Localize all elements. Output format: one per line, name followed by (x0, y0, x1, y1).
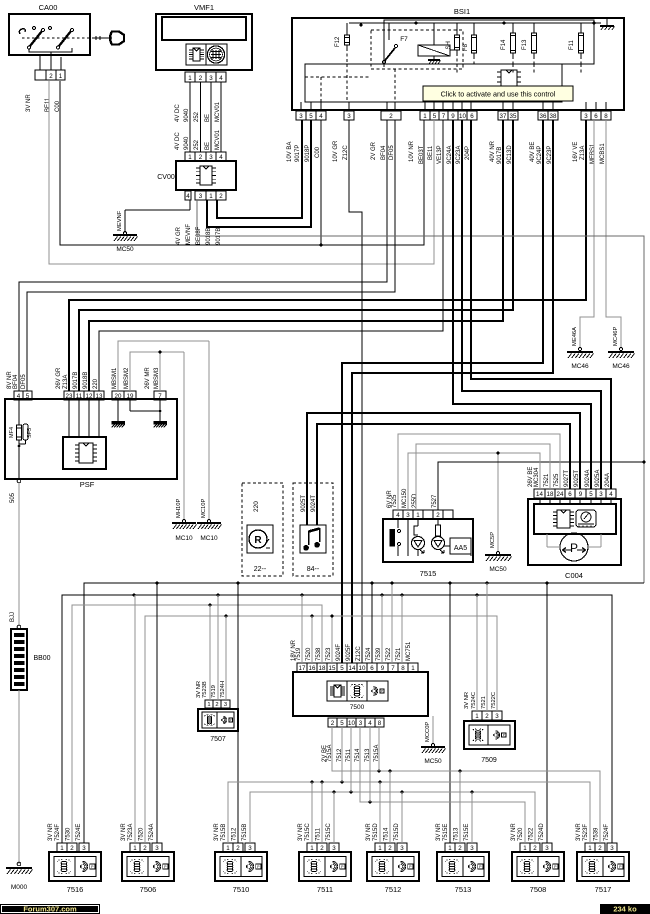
svg-text:7515C: 7515C (326, 823, 332, 841)
PSF internal ground pins 19 7 (129, 400, 131, 411)
wire BSI VE13P to PSF pin 13 (99, 120, 443, 391)
svg-text:BSI1: BSI1 (454, 7, 470, 16)
wire PSF pins 19 7 to MC10 (130, 352, 184, 391)
connector pins 7512 (375, 843, 385, 852)
BSI1 pin group 10V NR pins 1 5 7 9 10 6 (420, 111, 430, 120)
svg-text:9: 9 (579, 491, 583, 498)
svg-text:6: 6 (568, 491, 572, 498)
svg-text:7521: 7521 (481, 696, 487, 709)
component CA00 ignition switch (9, 14, 90, 55)
svg-text:MBSM1: MBSM1 (112, 367, 118, 389)
7515 internal lamp 2 (437, 519, 439, 525)
svg-text:18: 18 (319, 665, 326, 672)
svg-text:3: 3 (599, 491, 603, 498)
svg-text:1: 1 (209, 193, 213, 200)
svg-text:MC50: MC50 (424, 758, 442, 765)
wire CA00 C00 to BSI pin 1 BE03T (60, 81, 424, 245)
svg-text:7512: 7512 (232, 827, 238, 841)
wire drops to 7510 (237, 583, 239, 843)
connector pins 7517 (585, 843, 595, 852)
svg-text:7: 7 (391, 665, 395, 672)
svg-text:13: 13 (96, 393, 103, 400)
svg-text:7513: 7513 (454, 827, 460, 841)
ground MC46 right with label MC46P (606, 120, 621, 349)
wire drops to 7507 (209, 605, 211, 700)
C004 antenna circle icon (560, 533, 588, 561)
svg-text:10V BA: 10V BA (287, 142, 293, 162)
component 7507 front tweeter (198, 709, 238, 731)
svg-text:10: 10 (359, 665, 366, 672)
svg-text:BE: BE (205, 114, 211, 122)
fuse F14 (512, 23, 514, 30)
wire drops to 7513 7508 7517 from buses (449, 583, 451, 843)
svg-text:SH: SH (446, 41, 452, 49)
svg-text:F7: F7 (400, 36, 408, 43)
connector pins 7508 (520, 843, 530, 852)
svg-text:16V VE: 16V VE (573, 142, 579, 162)
svg-text:10V GR: 10V GR (333, 140, 339, 162)
BSI1 pin row group 10V BA pins 3 5 4 (296, 111, 306, 120)
svg-text:MEBS1: MEBS1 (590, 143, 596, 164)
svg-text:VMF1: VMF1 (194, 3, 214, 12)
svg-text:7506: 7506 (140, 885, 157, 894)
svg-text:7511: 7511 (317, 885, 333, 894)
svg-text:3V NR: 3V NR (576, 823, 582, 841)
wire BSI 9C24P to 7500 pin 5 (342, 120, 543, 663)
svg-text:7508: 7508 (530, 885, 547, 894)
svg-text:MEVNF: MEVNF (117, 210, 123, 231)
svg-text:MEVNF: MEVNF (186, 224, 192, 245)
svg-text:4V DC: 4V DC (175, 132, 181, 150)
svg-text:7517: 7517 (595, 885, 612, 894)
svg-text:1: 1 (310, 845, 314, 852)
ground MC50 mid with label MC5P (497, 453, 499, 553)
svg-text:7524F: 7524F (55, 824, 61, 841)
svg-text:7525: 7525 (554, 473, 560, 487)
svg-text:35: 35 (510, 113, 517, 120)
svg-text:4V DC: 4V DC (175, 104, 181, 122)
svg-text:7523A: 7523A (128, 824, 134, 841)
svg-text:1: 1 (411, 665, 415, 672)
ground MC10 right with label MC10P (208, 341, 210, 521)
svg-text:MCV01: MCV01 (215, 101, 221, 122)
svg-text:7512: 7512 (385, 885, 402, 894)
svg-text:MC10: MC10 (175, 535, 193, 542)
ground MC46 left with label ME46A (580, 120, 594, 349)
speaker 7506 (122, 852, 174, 881)
component 7509 front tweeter right (464, 721, 515, 749)
VMF1 internal connector icons (186, 44, 227, 65)
connector pins 7516 (57, 843, 67, 852)
speaker 7512 (367, 852, 419, 881)
svg-text:3: 3 (610, 845, 614, 852)
svg-text:4: 4 (396, 512, 400, 519)
svg-text:7: 7 (158, 393, 162, 400)
svg-text:1: 1 (423, 113, 427, 120)
svg-text:CA00: CA00 (39, 3, 58, 12)
svg-text:6: 6 (594, 113, 598, 120)
wire 7515 pin 2 from right edge (438, 462, 644, 510)
BSI1 pin stubs (300, 102, 302, 111)
wire drops to 7506 (134, 595, 136, 843)
svg-text:PSF: PSF (80, 480, 95, 489)
svg-text:7524: 7524 (366, 647, 372, 661)
BSI1 internal top bus (349, 22, 601, 24)
svg-text:7507: 7507 (210, 736, 226, 743)
svg-text:2: 2 (236, 845, 240, 852)
wire BSI 9C23P to 7500 pin 14 (352, 120, 553, 663)
wire 84 box 9024T to C004 pin 6 (317, 424, 570, 525)
wire drops to speakers from lower buses (311, 782, 313, 843)
PSF pin row 20 19 (112, 391, 124, 400)
BSI1 pin group 40V NR pins 37 35 (498, 111, 508, 120)
footer 234 ko (600, 904, 650, 914)
speaker 7510 (215, 852, 267, 881)
svg-text:2: 2 (70, 845, 74, 852)
splice BB00 (18, 483, 20, 625)
svg-text:BE11: BE11 (45, 97, 51, 112)
svg-text:4V GR: 4V GR (176, 226, 182, 245)
svg-text:15: 15 (329, 665, 336, 672)
svg-text:9: 9 (451, 113, 455, 120)
svg-text:1: 1 (416, 512, 420, 519)
component VMF1 multifunction display (156, 14, 252, 70)
wire BSI 9C24A staircase to C004 (453, 120, 591, 489)
component CV00 interface unit (185, 152, 195, 161)
svg-text:2: 2 (215, 702, 218, 708)
svg-text:2: 2 (320, 845, 324, 852)
svg-text:7520: 7520 (139, 827, 145, 841)
svg-text:BE11: BE11 (428, 145, 434, 160)
svg-text:12: 12 (86, 393, 93, 400)
svg-text:7515E: 7515E (443, 824, 449, 841)
fuse SH (456, 23, 458, 32)
svg-text:24: 24 (557, 491, 564, 498)
svg-text:7521: 7521 (544, 473, 550, 487)
svg-text:MC5P: MC5P (490, 532, 496, 548)
footer Forum307.com (0, 904, 100, 914)
svg-text:3V NR: 3V NR (366, 823, 372, 841)
svg-text:9040: 9040 (184, 108, 190, 122)
CA00 switch contacts (22, 37, 90, 39)
svg-text:F13: F13 (522, 39, 528, 50)
svg-text:26V GR: 26V GR (56, 367, 62, 389)
BSI1 pin group 10V GR pin 3 (344, 111, 354, 120)
svg-text:19: 19 (127, 393, 134, 400)
svg-text:7522: 7522 (386, 647, 392, 661)
svg-text:Z12C: Z12C (343, 145, 349, 160)
svg-text:7524A: 7524A (149, 824, 155, 841)
svg-text:9017P: 9017P (295, 145, 301, 162)
7515 internal AA5 box (450, 538, 471, 554)
tooltip Click to activate and use this control (423, 86, 573, 101)
svg-text:7524H: 7524H (220, 681, 226, 698)
svg-text:3V NR: 3V NR (298, 823, 304, 841)
7515 pin row 4 3 1 2 (393, 510, 403, 519)
svg-text:7516: 7516 (67, 885, 84, 894)
svg-text:7538: 7538 (316, 647, 322, 661)
BSI1 internal ground (606, 18, 608, 26)
svg-text:1: 1 (59, 73, 63, 80)
PSF internal ground pin 20 (117, 400, 119, 421)
VMF1 connector pins 1 2 3 4 (185, 72, 195, 82)
svg-text:7523F: 7523F (583, 824, 589, 841)
relay F7 dashed box (371, 30, 463, 69)
bus wire 3 (72, 605, 322, 843)
svg-text:7515B: 7515B (221, 824, 227, 841)
svg-text:7515D: 7515D (394, 823, 400, 841)
svg-text:14: 14 (536, 491, 543, 498)
BSI1 pin group 2V GR pin 2 (381, 111, 401, 120)
svg-text:23: 23 (66, 393, 73, 400)
speaker 7513 (437, 852, 489, 881)
svg-text:16: 16 (309, 665, 316, 672)
svg-text:3: 3 (347, 113, 351, 120)
svg-text:2: 2 (199, 75, 203, 82)
connector pins 7506 (130, 843, 140, 852)
svg-text:40V BE: 40V BE (530, 142, 536, 162)
svg-text:Click to activate and use this: Click to activate and use this control (441, 90, 556, 99)
svg-text:F8: F8 (463, 43, 469, 51)
svg-text:7515C: 7515C (305, 823, 311, 841)
svg-text:SF5: SF5 (27, 428, 33, 438)
svg-text:18: 18 (547, 491, 554, 498)
bus wire 1 (84, 583, 644, 843)
svg-text:3V NR: 3V NR (436, 823, 442, 841)
bus wire 4 (145, 616, 497, 843)
svg-text:7522: 7522 (529, 827, 535, 841)
svg-text:1: 1 (378, 845, 382, 852)
7500 internal icons (327, 681, 388, 701)
svg-text:2: 2 (598, 845, 602, 852)
svg-text:3V NR: 3V NR (511, 823, 517, 841)
svg-text:20: 20 (115, 393, 122, 400)
BSI1 inner dashed links (305, 76, 371, 78)
svg-text:MC150: MC150 (402, 488, 408, 508)
CV00 bottom pins 4 3 1 2 (185, 191, 191, 200)
svg-text:36: 36 (540, 113, 547, 120)
svg-text:MC46: MC46 (571, 363, 589, 370)
svg-text:11: 11 (76, 393, 83, 400)
svg-text:MC304: MC304 (534, 467, 540, 487)
wire CV00 BE08F to right edge down to bus (197, 200, 644, 583)
C004 gauge icon (576, 510, 596, 527)
speaker 7516 (49, 852, 101, 881)
svg-text:7524C: 7524C (471, 692, 477, 709)
wire BSI DF05 to PSF pin 5 (27, 120, 395, 391)
wires VMF1 to CV00 (189, 82, 191, 152)
svg-text:3: 3 (199, 193, 203, 200)
svg-text:7510: 7510 (233, 885, 250, 894)
component 7515 lighting rheostat (383, 519, 473, 562)
svg-text:AA5: AA5 (454, 545, 467, 552)
svg-text:22--: 22-- (254, 566, 267, 573)
svg-text:10: 10 (459, 113, 466, 120)
svg-text:255D: 255D (412, 493, 418, 508)
connector pins 7511 (307, 843, 317, 852)
bus wire 2 (62, 595, 612, 843)
component C004 radio (528, 499, 621, 565)
BSI1 inner module box (305, 64, 562, 102)
svg-text:C00: C00 (315, 146, 321, 158)
svg-text:F12: F12 (335, 36, 341, 47)
option box 22 dashed with radio icon (242, 483, 283, 576)
svg-text:9: 9 (381, 665, 385, 672)
svg-text:DF05: DF05 (389, 145, 395, 160)
wire 7515 pin 3 to C004 pin 14 and MC50 (408, 453, 540, 510)
svg-text:37: 37 (500, 113, 507, 120)
svg-text:BE: BE (205, 142, 211, 150)
BSI1 pin group 40V BE pins 36 38 (538, 111, 548, 120)
svg-text:BF04: BF04 (13, 374, 19, 389)
svg-text:3: 3 (332, 845, 336, 852)
svg-text:2: 2 (458, 845, 462, 852)
svg-text:CV00: CV00 (157, 174, 175, 181)
svg-text:1: 1 (475, 713, 479, 720)
svg-text:7521: 7521 (396, 647, 402, 661)
svg-text:7515: 7515 (420, 569, 437, 578)
svg-text:BJJ: BJJ (10, 612, 16, 622)
svg-text:3: 3 (224, 702, 227, 708)
svg-text:5: 5 (309, 113, 313, 120)
connector pins 7510 (223, 843, 233, 852)
svg-text:7509: 7509 (481, 757, 497, 764)
svg-text:P: P (503, 733, 505, 737)
wire BSI 9C13D to PSF pin 11 (79, 120, 513, 391)
svg-text:7515D: 7515D (373, 823, 379, 841)
svg-text:7520: 7520 (518, 827, 524, 841)
wire BSI 9C23A staircase to C004 (462, 120, 601, 489)
svg-text:4: 4 (319, 113, 323, 120)
svg-text:7515E: 7515E (464, 824, 470, 841)
PSF pin 7 (154, 391, 166, 400)
svg-text:MC751: MC751 (406, 641, 412, 661)
svg-text:84--: 84-- (307, 566, 320, 573)
svg-text:220: 220 (253, 501, 260, 512)
svg-text:234 ko: 234 ko (613, 905, 637, 914)
svg-text:8: 8 (401, 665, 405, 672)
7515 internal lamp 1 (417, 519, 419, 526)
wire CA00 BE11 to BSI pin 5 (49, 81, 434, 264)
svg-text:3: 3 (209, 75, 213, 82)
svg-text:7520: 7520 (306, 647, 312, 661)
svg-text:5: 5 (340, 665, 344, 672)
svg-text:1: 1 (188, 75, 192, 82)
wire 7515 pin 1 to C004 pin 18 (416, 444, 550, 510)
svg-text:3: 3 (495, 713, 499, 720)
svg-text:7513: 7513 (455, 885, 472, 894)
wire CV00 9017B to BSI 9017P (217, 120, 302, 218)
svg-text:P: P (570, 541, 578, 555)
svg-text:MC46: MC46 (612, 363, 630, 370)
svg-text:3: 3 (584, 113, 588, 120)
ground MC50 below CV00 MEVNF (189, 200, 191, 210)
svg-text:7515B: 7515B (242, 824, 248, 841)
svg-text:DF05: DF05 (21, 374, 27, 389)
music note icon (303, 542, 320, 551)
svg-text:2: 2 (331, 720, 335, 727)
svg-text:MC50: MC50 (489, 566, 507, 573)
7500 pin row top (297, 663, 307, 672)
component PSF fuse box (5, 399, 177, 479)
svg-text:3: 3 (545, 845, 549, 852)
svg-text:8: 8 (378, 720, 382, 727)
svg-text:220: 220 (93, 378, 99, 389)
svg-text:7514: 7514 (384, 827, 390, 841)
svg-text:4: 4 (17, 393, 21, 400)
speaker 7517 (577, 852, 629, 881)
svg-text:7511: 7511 (316, 827, 322, 841)
svg-text:P: P (381, 689, 383, 693)
svg-text:MCV01: MCV01 (215, 129, 221, 150)
wire drops to 7509 (476, 595, 478, 711)
relay F7 coil (418, 45, 450, 56)
svg-text:4: 4 (186, 193, 190, 200)
option box 84 dashed with music icon (293, 483, 333, 576)
svg-text:C004: C004 (565, 571, 583, 580)
7515 internal switch (397, 519, 399, 528)
PSF internal electronics box (63, 437, 106, 469)
svg-text:4: 4 (609, 491, 613, 498)
BSI1 inner connector icon (501, 70, 517, 94)
svg-text:7524F: 7524F (604, 824, 610, 841)
C004 pin stubs (539, 498, 541, 504)
svg-text:3V NR: 3V NR (26, 94, 32, 112)
PSF internal fuse MF4 SF5 (18, 400, 20, 425)
svg-text:MCC0P: MCC0P (425, 722, 431, 742)
svg-text:3: 3 (299, 113, 303, 120)
svg-text:7524D: 7524D (539, 823, 545, 841)
7507 pins (205, 700, 213, 708)
svg-text:1: 1 (133, 845, 137, 852)
wire drops 7500 bottom pins (341, 727, 343, 782)
svg-text:F11: F11 (569, 39, 575, 50)
fuse F8 (473, 23, 475, 32)
svg-text:MC50: MC50 (116, 246, 134, 253)
svg-text:7527: 7527 (432, 494, 438, 508)
svg-text:3: 3 (400, 845, 404, 852)
svg-text:3: 3 (359, 720, 363, 727)
7509 pins (472, 711, 482, 720)
svg-text:P: P (230, 718, 232, 722)
svg-text:7524E: 7524E (76, 824, 82, 841)
svg-text:2: 2 (389, 113, 393, 120)
lower distribution buses from 7500 (332, 727, 600, 843)
svg-text:505: 505 (10, 492, 16, 503)
svg-text:26V MR: 26V MR (145, 367, 151, 389)
svg-text:7523: 7523 (326, 647, 332, 661)
svg-text:1: 1 (523, 845, 527, 852)
PSF pin row 4 5 (14, 391, 23, 400)
svg-text:1: 1 (226, 845, 230, 852)
speaker 7511 (299, 852, 351, 881)
wire BSI BF04 to PSF pin 4 (19, 120, 387, 391)
wire CV00 9018B to BSI 9018P (207, 120, 311, 227)
svg-text:MC46P: MC46P (613, 327, 619, 346)
svg-text:4: 4 (219, 75, 223, 82)
CA00 connector pins 2 1 (35, 70, 46, 80)
svg-text:MC10: MC10 (200, 535, 218, 542)
wire drops to 7500 top (301, 595, 303, 663)
svg-text:M000: M000 (11, 884, 28, 891)
svg-text:252: 252 (194, 139, 200, 150)
svg-text:7519: 7519 (211, 685, 217, 698)
svg-text:MF4: MF4 (9, 427, 15, 438)
svg-text:3V NR: 3V NR (121, 823, 127, 841)
wire BSI 9017B to PSF pin 12 (89, 120, 503, 391)
svg-text:14: 14 (349, 665, 356, 672)
svg-text:5: 5 (26, 393, 30, 400)
